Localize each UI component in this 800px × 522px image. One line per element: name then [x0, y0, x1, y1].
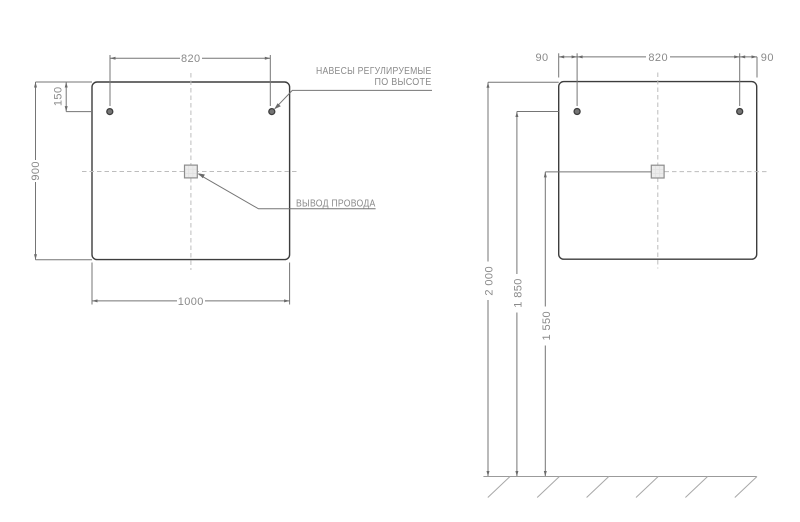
svg-text:ВЫВОД ПРОВОДА: ВЫВОД ПРОВОДА [296, 199, 376, 210]
svg-text:90: 90 [761, 52, 774, 64]
top dimension chain 90 / 820 / 90 (side view) [535, 52, 773, 106]
centerline horizontal (side view) [665, 171, 769, 173]
hinge dot left (front view) [107, 109, 113, 115]
centerline vertical (front view) [190, 73, 192, 270]
dimension 150 (front view) [53, 82, 93, 112]
leader: height-adjustable hangers label [274, 66, 432, 109]
svg-text:90: 90 [535, 52, 548, 64]
dimension 900 (front view) [30, 82, 92, 260]
floor hatch 2 [537, 477, 559, 498]
floor hatch 3 [587, 477, 609, 498]
wire outlet square (side view) [651, 165, 664, 178]
dimension 1850 (side view) [513, 112, 559, 477]
svg-text:2 000: 2 000 [484, 266, 496, 296]
floor hatch 1 [488, 477, 510, 498]
hinge dot right (front view) [269, 109, 275, 115]
dimension 2000 (side view) [484, 82, 559, 476]
dimension 1550 (side view) [541, 172, 651, 477]
svg-text:НАВЕСЫ РЕГУЛИРУЕМЫЕ: НАВЕСЫ РЕГУЛИРУЕМЫЕ [316, 66, 432, 77]
svg-text:1000: 1000 [178, 296, 204, 308]
svg-text:820: 820 [181, 53, 201, 65]
leader: wire outlet label [198, 173, 376, 209]
svg-text:150: 150 [53, 87, 65, 107]
svg-text:820: 820 [648, 52, 668, 64]
mirror outline (side view) [559, 82, 757, 260]
svg-text:1 550: 1 550 [541, 311, 553, 341]
centerline vertical (side view) [657, 73, 659, 269]
floor hatch 5 [685, 477, 707, 498]
wire outlet square (front view) [185, 165, 198, 178]
floor hatch 6 [735, 477, 757, 498]
hinge dot left (side view) [574, 109, 580, 115]
dimension 1000 (front view) [92, 263, 290, 308]
centerline horizontal (front view) [82, 171, 299, 173]
svg-text:ПО ВЫСОТЕ: ПО ВЫСОТЕ [375, 77, 432, 88]
svg-text:900: 900 [30, 161, 42, 181]
mirror outline (front view) [92, 82, 290, 260]
floor hatch 4 [636, 477, 658, 498]
floor line [483, 476, 756, 478]
svg-text:1 850: 1 850 [513, 278, 525, 308]
hinge dot right (side view) [737, 109, 743, 115]
dimension 820 (front view) [110, 53, 270, 106]
